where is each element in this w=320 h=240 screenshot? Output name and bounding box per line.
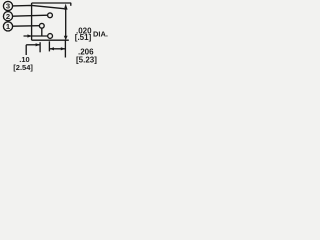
body outline bottom edge [32,39,69,41]
body outline top edge [32,2,72,4]
svg-text:[.51]: [.51] [75,33,92,42]
dimension .10 arrowhead pointing right [36,43,41,46]
leader line from callout 2 to pin 2 [13,15,48,16]
dimension .10 extension line [39,42,41,52]
dimension .206 left arrowhead pointing left [49,47,54,50]
down arrowhead at bottom edge [64,36,68,40]
pin callout circle 3 [3,1,12,10]
svg-text:[2.54]: [2.54] [13,63,33,72]
body outline left edge [31,3,33,40]
dimension .206 line [49,48,65,50]
pin callout circle 2 [3,12,12,21]
body outline top-right end tick [70,3,72,6]
dimension text .020 [.51] DIA. [75,26,108,42]
dimension text .206 [5.23] [76,47,97,64]
dimension .206 left extension line [48,41,50,51]
svg-text:2: 2 [6,12,10,21]
leader line from callout 3 to pin 3 wire [13,5,65,8]
pin 3 wire / vertical dimension line [65,9,67,36]
wiper lead horizontal with arrow to left body edge [24,35,48,37]
pin 2 terminal circle [48,13,53,18]
arrowhead pointing right at left body edge [27,34,32,37]
dimension .206 right arrowhead pointing right [61,47,66,50]
dimension .10 line [26,44,40,46]
wiper terminal circle [48,34,53,39]
dimension .10 left end tick [25,45,27,55]
up arrowhead at top edge [64,4,68,10]
leader line from callout 1 to pin 1 [13,25,40,28]
svg-text:DIA.: DIA. [93,30,108,39]
dimension text .10 [2.54] [13,55,33,72]
svg-text:1: 1 [6,22,11,31]
dimension .206 right extension line [64,40,66,57]
pin callout circle 1 [3,22,12,31]
pin 1 bent lead vertical [41,28,43,36]
svg-text:3: 3 [6,2,10,11]
svg-text:[5.23]: [5.23] [76,55,97,64]
pin 1 terminal circle [39,23,44,28]
